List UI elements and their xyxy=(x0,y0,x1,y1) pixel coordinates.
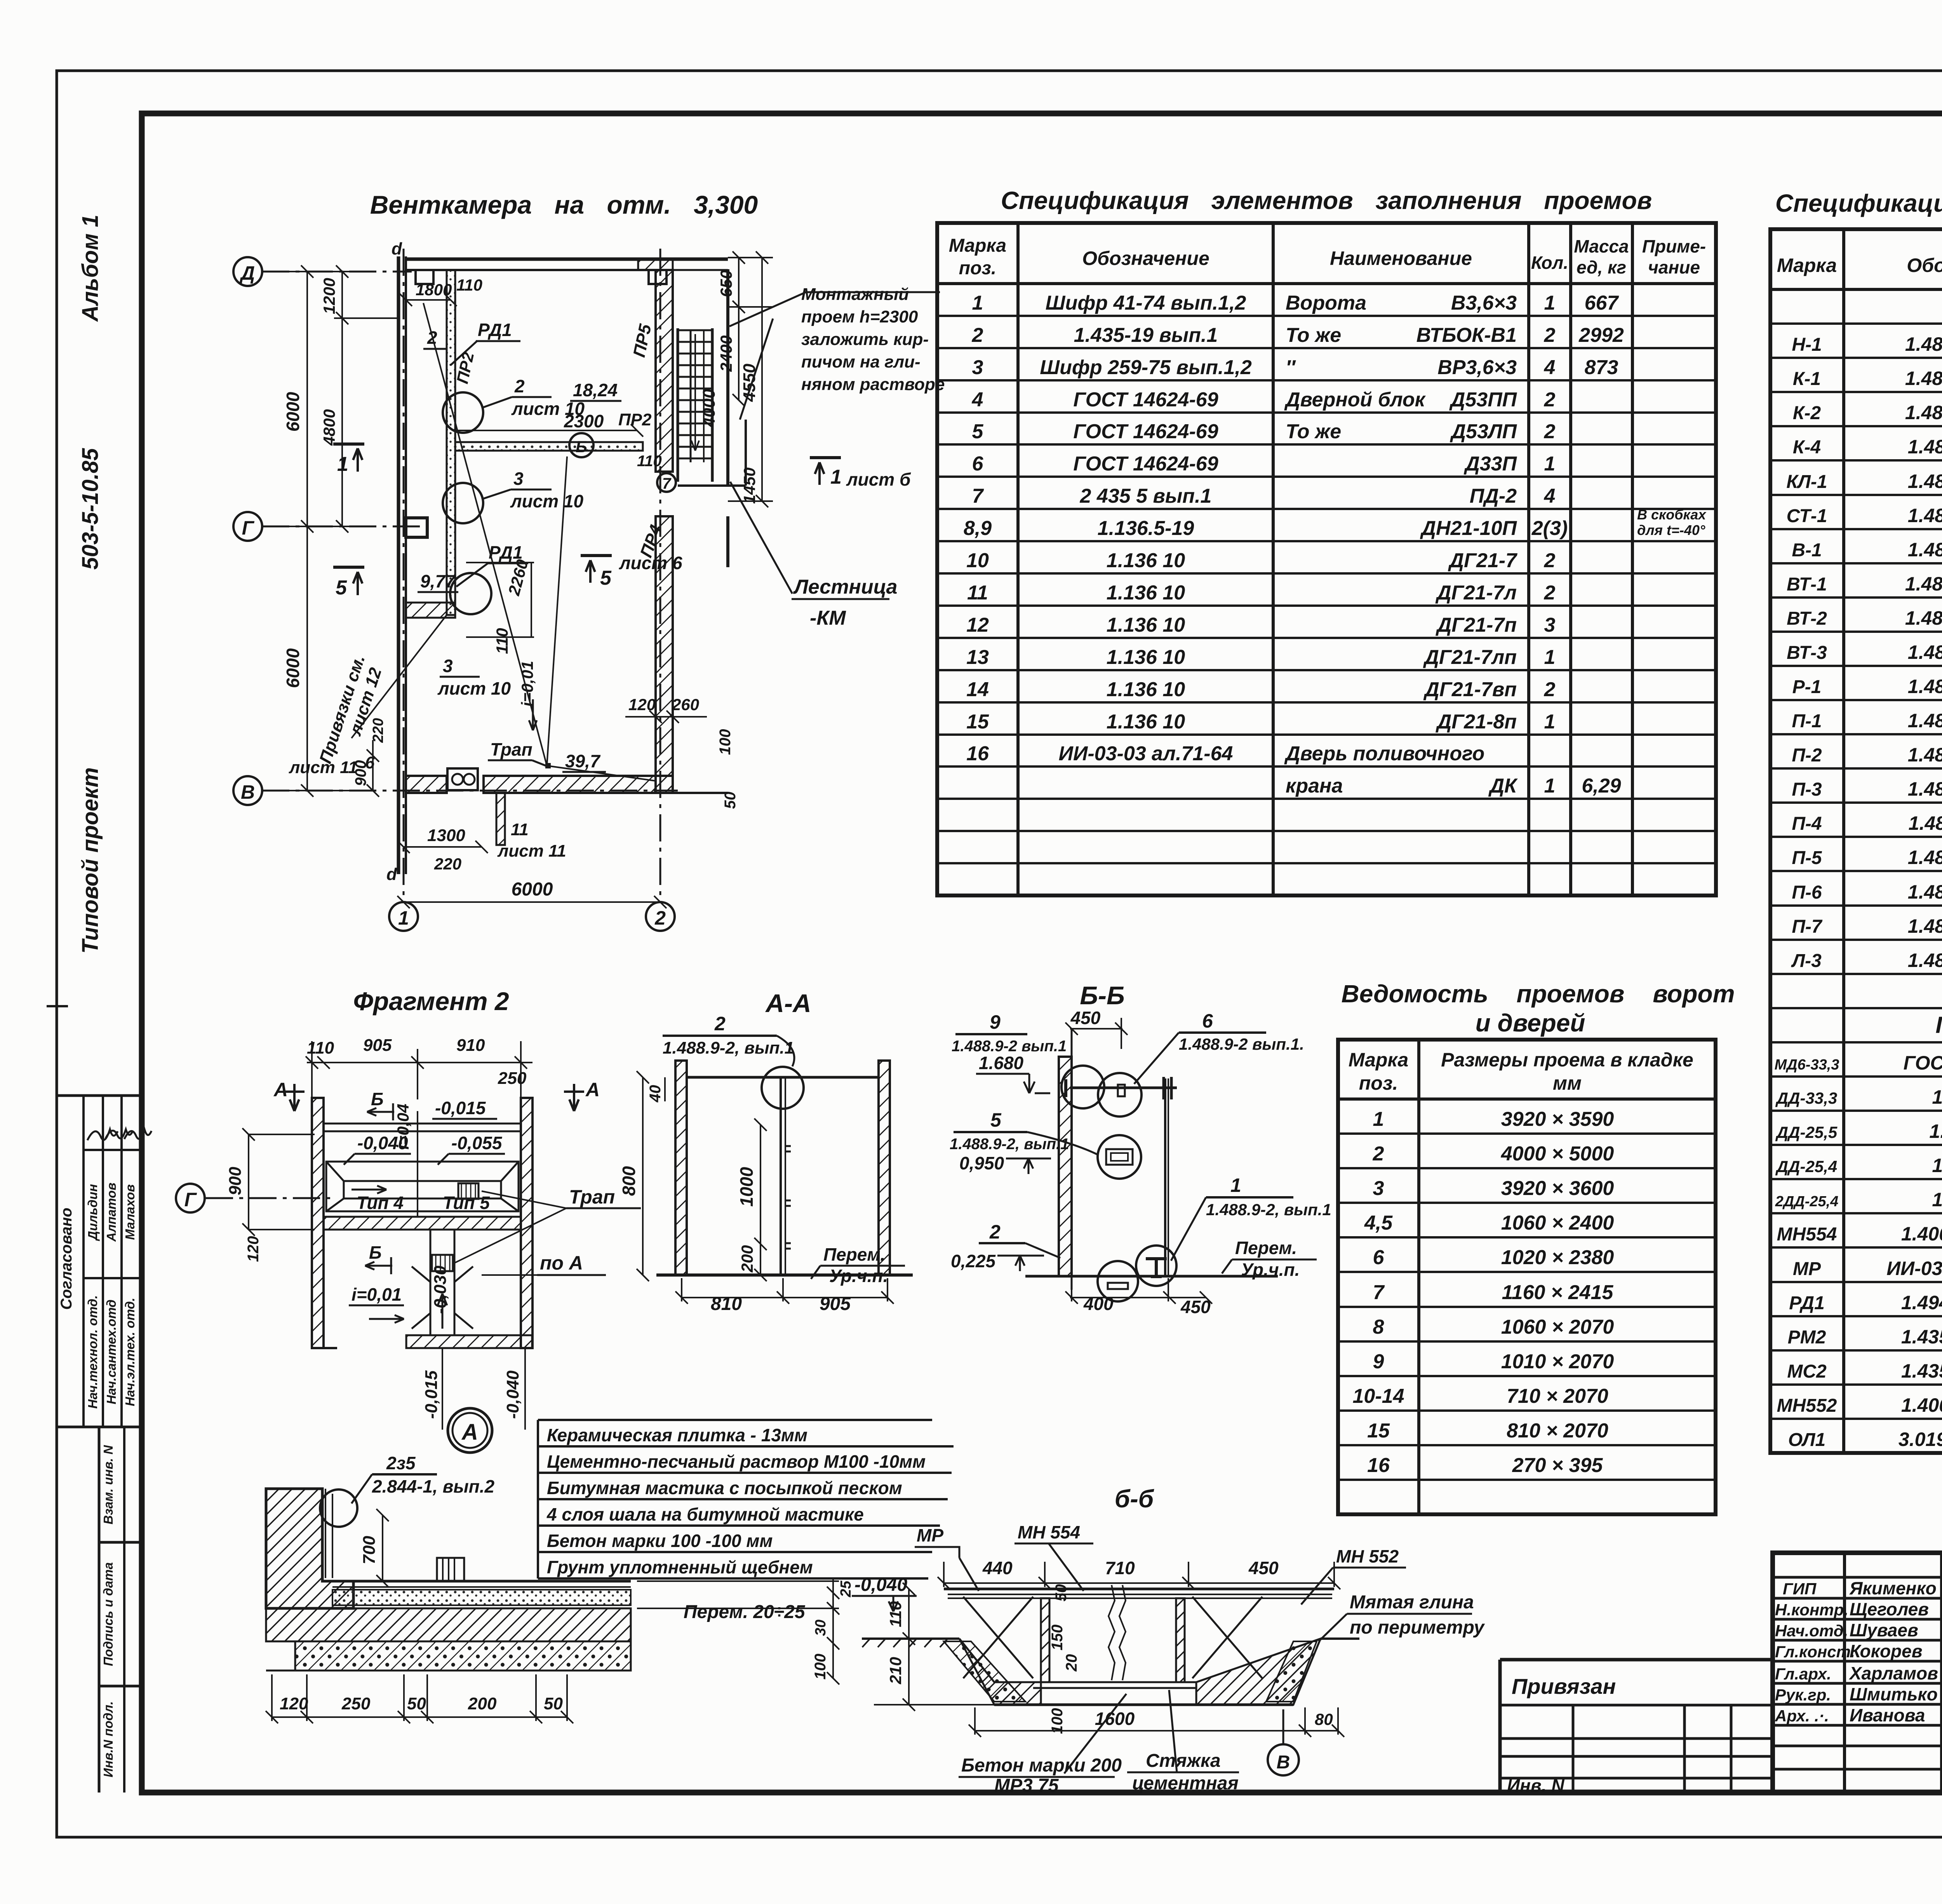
svg-text:Кокорев: Кокорев xyxy=(1850,1641,1923,1661)
svg-text:1.435-19, вып.8: 1.435-19, вып.8 xyxy=(1901,1360,1942,1382)
trap symbol xyxy=(447,768,478,790)
svg-text:1060 × 2070: 1060 × 2070 xyxy=(1501,1316,1614,1338)
svg-text:ед, кг: ед, кг xyxy=(1577,257,1626,277)
svg-text:Подпись и дата: Подпись и дата xyxy=(101,1562,115,1666)
svg-text:РД1: РД1 xyxy=(1789,1293,1825,1313)
bottom dims xyxy=(397,841,666,908)
svg-text:450: 450 xyxy=(1248,1558,1279,1578)
svg-text:Спецификация элементов запол: Спецификация элементов заполнения проемо… xyxy=(1001,186,1652,214)
right side dims xyxy=(728,251,773,507)
svg-text:лист 11: лист 11 xyxy=(289,758,358,777)
svg-text:Ведомость проемов ворот: Ведомость проемов ворот xyxy=(1342,980,1735,1008)
svg-text:2 435 5 вып.1: 2 435 5 вып.1 xyxy=(1080,485,1212,507)
svg-text:Размеры проема в кладке: Размеры проема в кладке xyxy=(1441,1049,1693,1071)
svg-text:120: 120 xyxy=(628,695,656,714)
svg-text:Альбом 1: Альбом 1 xyxy=(78,214,103,322)
svg-text:6000: 6000 xyxy=(283,392,303,432)
svg-text:50: 50 xyxy=(722,792,739,809)
staircase xyxy=(678,328,712,482)
svg-text:ДД-25,4: ДД-25,4 xyxy=(1775,1157,1837,1176)
svg-text:и дверей: и дверей xyxy=(1476,1009,1585,1037)
svg-text:1.479.5-1: 1.479.5-1 xyxy=(1932,1189,1942,1211)
svg-text:3.019.1-1, вып.1: 3.019.1-1, вып.1 xyxy=(1898,1428,1942,1450)
svg-text:80: 80 xyxy=(1315,1710,1333,1728)
svg-text:900: 900 xyxy=(226,1167,245,1195)
svg-text:В: В xyxy=(1277,1752,1290,1773)
svg-text:6000: 6000 xyxy=(512,879,553,900)
svg-text:6: 6 xyxy=(972,453,984,475)
svg-text:по А: по А xyxy=(540,1252,583,1274)
svg-text:2.844-1, вып.2: 2.844-1, вып.2 xyxy=(372,1476,495,1496)
svg-text:лист 6: лист 6 xyxy=(619,553,682,573)
svg-text:Шифр 41-74 вып.1,2: Шифр 41-74 вып.1,2 xyxy=(1046,292,1246,314)
svg-text:Грунт уплотненный щебнем: Грунт уплотненный щебнем xyxy=(547,1557,813,1577)
lower funnel xyxy=(412,1230,473,1335)
svg-text:Тип 4: Тип 4 xyxy=(357,1193,404,1213)
svg-text:Дверь поливочного: Дверь поливочного xyxy=(1284,742,1484,765)
svg-text:А: А xyxy=(273,1079,288,1101)
svg-text:8: 8 xyxy=(1373,1316,1384,1338)
svg-text:30: 30 xyxy=(813,1620,829,1636)
монтажный проем note xyxy=(801,285,945,394)
svg-text:ПД-2: ПД-2 xyxy=(1470,485,1517,507)
svg-text:3920 × 3600: 3920 × 3600 xyxy=(1501,1177,1614,1200)
svg-text:4000 × 5000: 4000 × 5000 xyxy=(1501,1143,1614,1165)
svg-text:1.136 10: 1.136 10 xyxy=(1107,582,1185,604)
svg-text:1010 × 2070: 1010 × 2070 xyxy=(1501,1350,1614,1373)
svg-text:ПР2: ПР2 xyxy=(453,350,477,385)
left dimension chains xyxy=(272,265,400,797)
svg-text:Стяжка: Стяжка xyxy=(1146,1751,1221,1771)
svg-text:пичом на гли-: пичом на гли- xyxy=(801,352,921,371)
svg-text:Б: Б xyxy=(369,1242,382,1263)
svg-text:2992: 2992 xyxy=(1578,324,1624,347)
svg-text:Г: Г xyxy=(242,517,255,539)
svg-text:Привязан: Привязан xyxy=(1512,1674,1616,1698)
svg-text:-КМ: -КМ xyxy=(810,607,846,629)
svg-text:150: 150 xyxy=(1049,1625,1066,1651)
svg-text:цементная: цементная xyxy=(1132,1773,1239,1794)
svg-text:Мятая глина: Мятая глина xyxy=(1350,1592,1474,1613)
svg-text:1.136 10: 1.136 10 xyxy=(1107,549,1185,572)
svg-text:2(3): 2(3) xyxy=(1531,517,1568,540)
svg-text:Дверной блок: Дверной блок xyxy=(1284,388,1426,411)
svg-text:1450: 1450 xyxy=(740,467,759,503)
svg-text:12: 12 xyxy=(966,614,989,636)
svg-text:А: А xyxy=(585,1079,600,1101)
svg-text:Д53ПП: Д53ПП xyxy=(1449,388,1517,411)
svg-text:2: 2 xyxy=(1373,1143,1384,1165)
svg-text:8,9: 8,9 xyxy=(964,517,992,540)
svg-text:Рук.гр.: Рук.гр. xyxy=(1775,1686,1831,1704)
svg-text:1.136.5-19: 1.136.5-19 xyxy=(1098,517,1194,540)
svg-text:К-1: К-1 xyxy=(1793,369,1821,389)
svg-text:4: 4 xyxy=(1544,356,1556,379)
svg-text:ДГ21-8п: ДГ21-8п xyxy=(1436,711,1517,733)
svg-text:ВТ-2: ВТ-2 xyxy=(1787,608,1827,629)
svg-text:450: 450 xyxy=(1070,1008,1101,1028)
svg-text:Д33П: Д33П xyxy=(1463,453,1517,475)
svg-text:ОЛ1: ОЛ1 xyxy=(1788,1430,1825,1450)
svg-text:1: 1 xyxy=(1544,453,1556,475)
svg-text:250: 250 xyxy=(341,1694,371,1713)
svg-text:б-б: б-б xyxy=(1115,1485,1155,1513)
svg-text:ДН21-10П: ДН21-10П xyxy=(1420,517,1517,540)
svg-text:ДГ21-7п: ДГ21-7п xyxy=(1436,614,1517,636)
svg-text:Инв. N: Инв. N xyxy=(1507,1775,1564,1796)
svg-text:710: 710 xyxy=(1105,1558,1135,1578)
svg-text:Ворота: Ворота xyxy=(1286,292,1366,314)
interior partitions (stippled) xyxy=(447,270,455,615)
svg-text:4800: 4800 xyxy=(320,409,338,446)
svg-text:Щеголев: Щеголев xyxy=(1850,1599,1929,1619)
svg-text:1.488.9-2.2013: 1.488.9-2.2013 xyxy=(1908,881,1942,903)
interior of fragment xyxy=(324,1111,521,1216)
svg-text:Обозначение: Обозначение xyxy=(1082,247,1209,269)
svg-text:1.136 10: 1.136 10 xyxy=(1107,711,1185,733)
svg-text:Марка: Марка xyxy=(1777,254,1837,276)
svg-text:К-2: К-2 xyxy=(1793,403,1821,423)
svg-text:110: 110 xyxy=(637,453,662,470)
svg-text:К-4: К-4 xyxy=(1793,437,1821,458)
svg-text:7: 7 xyxy=(662,475,672,492)
svg-text:1060 × 2400: 1060 × 2400 xyxy=(1501,1212,1614,1234)
svg-text:4000: 4000 xyxy=(700,389,719,427)
svg-text:Обозначение: Обозначение xyxy=(1907,254,1942,276)
svg-text:Б: Б xyxy=(576,437,587,456)
svg-text:10-14: 10-14 xyxy=(1353,1385,1404,1408)
svg-text:873: 873 xyxy=(1585,356,1618,379)
svg-text:поз.: поз. xyxy=(1359,1072,1398,1094)
svg-text:2400: 2400 xyxy=(717,335,735,372)
svg-text:1.488.9-2.2015: 1.488.9-2.2015 xyxy=(1908,641,1942,663)
svg-text:700: 700 xyxy=(360,1536,379,1564)
svg-text:Гардеробное: Гардеробное xyxy=(1935,1012,1942,1038)
svg-text:Н-1: Н-1 xyxy=(1792,334,1822,355)
svg-text:25: 25 xyxy=(838,1580,854,1597)
svg-text:лист 10: лист 10 xyxy=(437,678,511,699)
svg-text:120: 120 xyxy=(280,1694,308,1713)
svg-text:4,5: 4,5 xyxy=(1364,1212,1393,1234)
svg-text:МД6-33,3: МД6-33,3 xyxy=(1775,1057,1839,1073)
walls xyxy=(397,256,400,874)
svg-text:1.494-26, вып.1: 1.494-26, вып.1 xyxy=(1901,1292,1942,1313)
sidebar bottom cells xyxy=(98,1427,101,1793)
svg-text:3: 3 xyxy=(443,656,453,676)
svg-text:1.488.9-2. 2001: 1.488.9-2. 2001 xyxy=(1905,368,1942,389)
svg-text:ДК: ДК xyxy=(1488,775,1518,797)
svg-text:ДГ21-7лп: ДГ21-7лп xyxy=(1423,646,1517,669)
svg-text:Р-1: Р-1 xyxy=(1792,677,1822,697)
svg-text:260: 260 xyxy=(672,695,699,714)
svg-text:800: 800 xyxy=(619,1166,639,1196)
svg-text:6: 6 xyxy=(1202,1010,1213,1032)
svg-text:Ур.ч.п.: Ур.ч.п. xyxy=(829,1266,888,1286)
svg-text:2: 2 xyxy=(972,324,983,347)
sidebar approval block xyxy=(57,1096,142,1427)
svg-text:7: 7 xyxy=(1373,1281,1385,1304)
svg-text:1.488.9-2.2004: 1.488.9-2.2004 xyxy=(1908,539,1942,561)
svg-text:Типовой проект: Типовой проект xyxy=(78,767,103,954)
svg-text:1.488.9-2.2012: 1.488.9-2.2012 xyxy=(1908,847,1942,868)
svg-text:ДГ21-7л: ДГ21-7л xyxy=(1435,582,1517,604)
svg-text:1.488.9-2.2400: 1.488.9-2.2400 xyxy=(1908,436,1942,458)
svg-text:РМ2: РМ2 xyxy=(1788,1327,1826,1348)
svg-text:1.488.9-2, вып.1: 1.488.9-2, вып.1 xyxy=(1206,1200,1331,1219)
svg-text:4 слоя шала на битумной м: 4 слоя шала на битумной мастике xyxy=(546,1504,864,1524)
dims xyxy=(637,1071,894,1304)
svg-text:Цементно-песчаный раствор М10: Цементно-песчаный раствор М100 -10мм xyxy=(547,1451,926,1472)
svg-text:ИИ-03-03 ал.71-64: ИИ-03-03 ал.71-64 xyxy=(1059,742,1233,765)
svg-text:5: 5 xyxy=(972,420,984,443)
svg-text:16: 16 xyxy=(966,742,989,765)
svg-text:П-5: П-5 xyxy=(1792,848,1822,868)
svg-text:50: 50 xyxy=(1053,1584,1070,1602)
svg-text:Г: Г xyxy=(184,1189,197,1211)
node A bubble xyxy=(448,1408,492,1453)
svg-text:1.488.9-2.2024: 1.488.9-2.2024 xyxy=(1908,949,1942,971)
svg-text:-0,015: -0,015 xyxy=(435,1098,486,1118)
svg-text:Гл.конст.: Гл.конст. xyxy=(1775,1643,1855,1661)
axis lines dash-dot xyxy=(262,271,412,273)
svg-text:d: d xyxy=(392,239,402,258)
svg-text:П-2: П-2 xyxy=(1792,745,1822,766)
svg-text:100: 100 xyxy=(812,1654,829,1680)
svg-text:То же: То же xyxy=(1286,420,1341,443)
svg-text:1200: 1200 xyxy=(320,278,338,314)
svg-text:П-7: П-7 xyxy=(1792,916,1823,937)
svg-text:Согласовано: Согласовано xyxy=(58,1208,75,1310)
svg-text:1.488.9-2.2300: 1.488.9-2.2300 xyxy=(1908,505,1942,526)
svg-text:-0,015: -0,015 xyxy=(422,1370,441,1419)
svg-text:100: 100 xyxy=(717,729,734,755)
svg-text:2: 2 xyxy=(1544,549,1556,572)
svg-text:ВТБОК-В1: ВТБОК-В1 xyxy=(1416,324,1517,347)
svg-text:Нач.отд.: Нач.отд. xyxy=(1775,1622,1848,1640)
svg-text:2300: 2300 xyxy=(564,411,604,431)
svg-text:1: 1 xyxy=(337,453,348,476)
svg-text:Перем. 20÷25: Перем. 20÷25 xyxy=(684,1602,806,1622)
svg-text:лист 10: лист 10 xyxy=(510,491,584,511)
svg-text:905: 905 xyxy=(363,1036,392,1055)
svg-text:ДГ21-7вп: ДГ21-7вп xyxy=(1423,678,1517,701)
svg-text:1800: 1800 xyxy=(416,280,452,299)
svg-text:1.488.9-2.2000: 1.488.9-2.2000 xyxy=(1908,744,1942,766)
svg-text:1.488.9-2.2003: 1.488.9-2.2003 xyxy=(1908,470,1942,492)
svg-text:Шуваев: Шуваев xyxy=(1850,1620,1918,1640)
svg-text:3: 3 xyxy=(1373,1177,1384,1200)
fold mark on left border xyxy=(47,1005,68,1007)
svg-text:Арх. .·.: Арх. .·. xyxy=(1775,1707,1829,1725)
svg-text:1.488.9-2.2014: 1.488.9-2.2014 xyxy=(1908,915,1942,937)
svg-text:Н.контр.: Н.контр. xyxy=(1775,1601,1848,1619)
svg-text:по периметру: по периметру xyxy=(1350,1617,1485,1638)
svg-text:0,225: 0,225 xyxy=(951,1251,996,1271)
svg-text:120: 120 xyxy=(245,1236,262,1262)
svg-text:450: 450 xyxy=(1180,1297,1211,1317)
svg-text:1.488.9-2. 2005: 1.488.9-2. 2005 xyxy=(1905,573,1942,595)
svg-text:Якименко: Якименко xyxy=(1849,1578,1937,1598)
svg-text:2з5: 2з5 xyxy=(386,1453,416,1473)
svg-text:Б-Б: Б-Б xyxy=(1080,981,1124,1010)
svg-text:16: 16 xyxy=(1367,1454,1390,1477)
svg-text:Шифр 259-75 вып.1,2: Шифр 259-75 вып.1,2 xyxy=(1040,356,1252,379)
detail circles xyxy=(1061,1066,1104,1108)
svg-text:3920 × 3590: 3920 × 3590 xyxy=(1501,1108,1614,1131)
svg-text:для t=-40°: для t=-40° xyxy=(1637,522,1705,538)
svg-text:4: 4 xyxy=(972,388,983,411)
svg-text:Тип 5: Тип 5 xyxy=(443,1193,490,1213)
svg-text:Алпатов: Алпатов xyxy=(104,1183,118,1242)
svg-text:ИИ-03-03, ал.71-64: ИИ-03-03, ал.71-64 xyxy=(1886,1258,1942,1279)
svg-text:-0,030: -0,030 xyxy=(431,1265,450,1314)
svg-text:667: 667 xyxy=(1585,292,1619,314)
svg-text:проем h=2300: проем h=2300 xyxy=(801,307,918,326)
left rotated dims xyxy=(874,1583,994,1711)
svg-text:15: 15 xyxy=(1367,1420,1390,1442)
svg-text:1.435-19 вып.1: 1.435-19 вып.1 xyxy=(1074,324,1218,347)
svg-text:ВТ-1: ВТ-1 xyxy=(1787,574,1827,595)
svg-text:Масса: Масса xyxy=(1574,236,1629,256)
svg-text:6000: 6000 xyxy=(283,648,303,688)
svg-text:40: 40 xyxy=(647,1085,664,1103)
svg-text:РД1: РД1 xyxy=(478,320,512,340)
svg-text:Лестница: Лестница xyxy=(793,576,897,598)
svg-text:1: 1 xyxy=(398,907,409,929)
svg-text:220: 220 xyxy=(370,718,386,743)
svg-text:810: 810 xyxy=(711,1294,742,1314)
svg-text:Приме-: Приме- xyxy=(1642,236,1706,256)
floor detail (node A) xyxy=(266,1489,353,1608)
svg-text:Кол.: Кол. xyxy=(1531,253,1568,273)
svg-text:Бетон марки 200: Бетон марки 200 xyxy=(961,1755,1122,1776)
svg-text:18,24: 18,24 xyxy=(573,380,618,400)
svg-text:13: 13 xyxy=(966,646,989,669)
svg-text:МН 552: МН 552 xyxy=(1336,1546,1399,1566)
svg-text:ГОСТ 22414-77: ГОСТ 22414-77 xyxy=(1904,1052,1942,1074)
svg-text:То же: То же xyxy=(1286,324,1341,347)
svg-text:250: 250 xyxy=(498,1069,527,1088)
svg-text:220: 220 xyxy=(434,855,461,873)
svg-text:МН554: МН554 xyxy=(1777,1224,1837,1245)
svg-text:2ДД-25,4: 2ДД-25,4 xyxy=(1775,1193,1839,1210)
svg-text:В-1: В-1 xyxy=(1792,540,1822,561)
svg-text:1.479.5-1: 1.479.5-1 xyxy=(1932,1155,1942,1176)
svg-text:2: 2 xyxy=(989,1221,1001,1243)
svg-text:Л-3: Л-3 xyxy=(1791,951,1822,971)
svg-text:1.136 10: 1.136 10 xyxy=(1107,646,1185,669)
svg-text:1: 1 xyxy=(1544,775,1556,797)
svg-text:Трап: Трап xyxy=(490,739,532,760)
svg-text:110: 110 xyxy=(456,276,482,294)
svg-text:Наименование: Наименование xyxy=(1330,247,1472,269)
svg-text:1.488.9-2.2007: 1.488.9-2.2007 xyxy=(1908,710,1942,732)
svg-text:Малахов: Малахов xyxy=(123,1184,137,1240)
svg-text:710 × 2070: 710 × 2070 xyxy=(1507,1385,1608,1408)
svg-text:2: 2 xyxy=(654,907,666,929)
svg-text:1160 × 2415: 1160 × 2415 xyxy=(1502,1281,1614,1304)
svg-text:Трап: Трап xyxy=(569,1186,615,1208)
svg-text:503-5-10.85: 503-5-10.85 xyxy=(78,448,103,570)
svg-text:ПР5: ПР5 xyxy=(630,322,655,359)
svg-text:А-А: А-А xyxy=(765,989,811,1017)
svg-text:11: 11 xyxy=(511,820,529,839)
svg-text:МН 554: МН 554 xyxy=(1018,1522,1080,1542)
svg-text:Харламов: Харламов xyxy=(1848,1663,1938,1683)
floor layers list xyxy=(538,1420,954,1578)
svg-text:210: 210 xyxy=(886,1657,905,1685)
svg-text:Ур.ч.п.: Ур.ч.п. xyxy=(1241,1259,1300,1280)
svg-text:2: 2 xyxy=(1544,420,1556,443)
svg-text:270 × 395: 270 × 395 xyxy=(1512,1454,1603,1477)
svg-text:1.488.9-2. 2100: 1.488.9-2. 2100 xyxy=(1905,333,1942,355)
cobble areas xyxy=(944,1641,1025,1702)
svg-text:1.400-15, вып.1: 1.400-15, вып.1 xyxy=(1901,1394,1942,1416)
svg-text:1.488.9-2 вып.1.: 1.488.9-2 вып.1. xyxy=(1179,1035,1304,1053)
svg-text:5: 5 xyxy=(990,1109,1002,1131)
svg-text:1300: 1300 xyxy=(427,826,465,845)
svg-text:1.488.9-2.2011: 1.488.9-2.2011 xyxy=(1909,812,1942,834)
svg-text:МР3 75: МР3 75 xyxy=(994,1775,1059,1796)
svg-text:1: 1 xyxy=(1373,1108,1384,1131)
svg-text:-0,040: -0,040 xyxy=(854,1575,907,1595)
trench body xyxy=(862,1637,959,1640)
right wall (axis 2) hatched xyxy=(656,270,673,472)
svg-text:650: 650 xyxy=(717,270,735,297)
svg-text:Битумная мастика с посыпкой: Битумная мастика с посыпкой песком xyxy=(547,1478,902,1498)
svg-text:Перем.: Перем. xyxy=(823,1244,885,1265)
svg-text:110: 110 xyxy=(307,1038,334,1057)
svg-text:d: d xyxy=(386,865,397,884)
svg-text:2: 2 xyxy=(714,1013,726,1035)
svg-text:6,29: 6,29 xyxy=(1582,775,1621,797)
svg-text:15: 15 xyxy=(966,711,989,733)
svg-text:14: 14 xyxy=(966,678,989,701)
svg-text:6: 6 xyxy=(1373,1246,1385,1269)
svg-text:ДД-25,5: ДД-25,5 xyxy=(1775,1123,1838,1141)
svg-text:Перем.: Перем. xyxy=(1235,1238,1297,1258)
svg-text:400: 400 xyxy=(1083,1294,1114,1314)
svg-text:-0,040: -0,040 xyxy=(357,1133,408,1153)
svg-text:Нач.эл.тех. отд.: Нач.эл.тех. отд. xyxy=(123,1298,137,1406)
svg-text:ВР3,6×3: ВР3,6×3 xyxy=(1437,356,1517,379)
svg-text:МН552: МН552 xyxy=(1777,1395,1837,1416)
svg-text:ГОСТ 14624-69: ГОСТ 14624-69 xyxy=(1073,453,1218,475)
svg-text:Д: Д xyxy=(239,262,255,284)
svg-text:50: 50 xyxy=(407,1694,426,1713)
svg-text:2: 2 xyxy=(1544,582,1556,604)
svg-text:Фрагмент 2: Фрагмент 2 xyxy=(353,987,509,1016)
svg-text:1.136 10: 1.136 10 xyxy=(1107,678,1185,701)
top dims xyxy=(938,1562,1340,1589)
svg-text:Шмитько: Шмитько xyxy=(1850,1684,1938,1704)
svg-text:5: 5 xyxy=(336,577,347,599)
svg-text:200: 200 xyxy=(738,1245,756,1273)
svg-text:В: В xyxy=(241,781,255,803)
top tie rod xyxy=(1070,1087,1177,1089)
top small dims xyxy=(400,294,457,306)
svg-text:СТ-1: СТ-1 xyxy=(1787,506,1827,526)
svg-text:ГОСТ 14624-69: ГОСТ 14624-69 xyxy=(1073,420,1218,443)
signature squiggles xyxy=(87,1129,118,1140)
svg-text:1: 1 xyxy=(1544,646,1556,669)
svg-text:1.488.9-2. 2006: 1.488.9-2. 2006 xyxy=(1905,607,1942,629)
svg-text:заложить кир-: заложить кир- xyxy=(801,330,929,349)
bottom dims xyxy=(969,1707,1344,1737)
svg-text:1. 479.5-1: 1. 479.5-1 xyxy=(1929,1120,1942,1142)
svg-text:905: 905 xyxy=(820,1294,851,1314)
svg-text:Монтажный: Монтажный xyxy=(801,285,909,304)
